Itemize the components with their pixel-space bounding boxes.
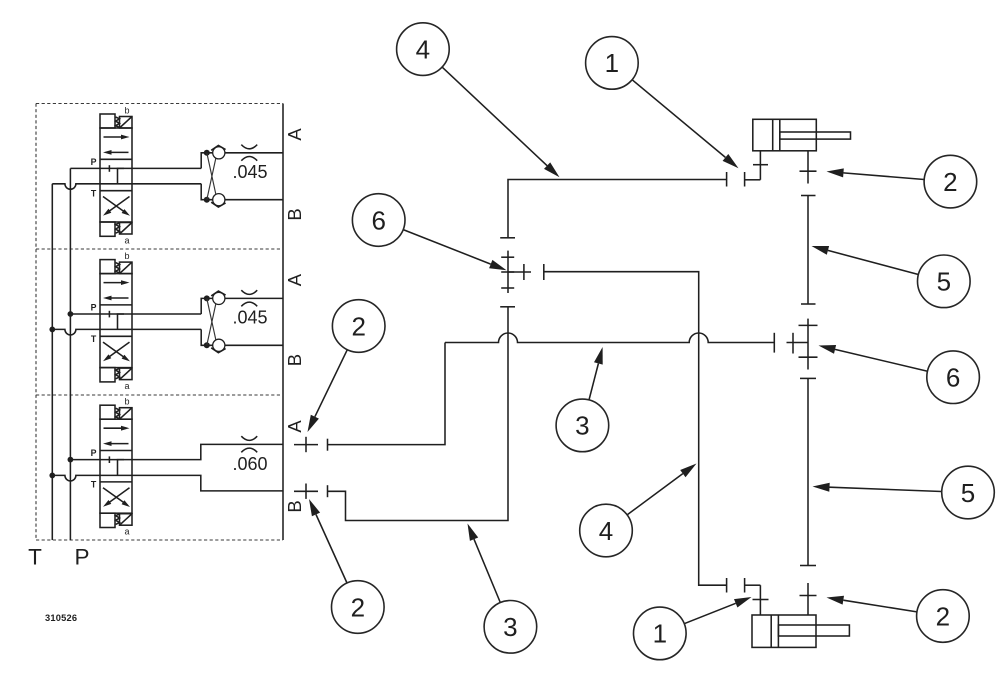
svg-text:2: 2 bbox=[936, 601, 950, 631]
tube from B3 to tee fitting 6 bbox=[328, 307, 509, 521]
section 1 T branch line with crossover bump bbox=[52, 184, 201, 190]
check valve assembly section 2 bbox=[201, 290, 283, 353]
svg-text:A: A bbox=[284, 420, 305, 433]
section 2 P branch line bbox=[70, 313, 201, 315]
callout 6 balloon bbox=[927, 351, 980, 404]
svg-text:4: 4 bbox=[599, 516, 613, 546]
callout 2 balloon bbox=[924, 155, 977, 208]
tee fitting on right column bbox=[799, 319, 818, 370]
tube from A3 to manifold line bbox=[328, 343, 446, 445]
tank supply line T bbox=[51, 184, 53, 540]
callout 1 leader bbox=[632, 80, 725, 158]
svg-text:6: 6 bbox=[946, 363, 960, 393]
callout 5 balloon bbox=[942, 466, 995, 519]
cylinder 1 left port elbow bbox=[753, 151, 768, 180]
section divider dashed line 1 bbox=[36, 248, 283, 250]
main manifold tube with crossover bumps bbox=[445, 333, 774, 343]
check valve assembly section 1 bbox=[201, 145, 283, 208]
tee fitting 6 upper bbox=[501, 251, 531, 293]
callout 4 balloon bbox=[580, 504, 633, 557]
callout 2 balloon bbox=[332, 300, 385, 353]
svg-text:1: 1 bbox=[605, 48, 619, 78]
section 3 P junction dot bbox=[68, 457, 74, 463]
callout 5 balloon bbox=[918, 255, 971, 308]
section 3 T junction dot bbox=[49, 473, 55, 479]
valve block dashed enclosure bbox=[36, 104, 283, 541]
callout 1 balloon bbox=[586, 37, 639, 90]
callout 4 leader bbox=[627, 474, 683, 515]
tube from fitting 6 up to cylinder 1 disconnect bbox=[508, 180, 727, 238]
callout 6 balloon bbox=[352, 194, 405, 247]
cylinder 1 quick disconnect bbox=[727, 172, 761, 187]
callout 3 balloon bbox=[484, 601, 537, 654]
callout 2 balloon bbox=[917, 590, 970, 643]
valve V3 bbox=[91, 397, 132, 537]
callout 5 leader bbox=[828, 250, 919, 274]
section 2 P junction dot bbox=[68, 311, 74, 317]
callout 2 leader bbox=[316, 515, 347, 584]
svg-text:B: B bbox=[284, 354, 305, 366]
svg-text:310526: 310526 bbox=[45, 613, 77, 623]
callout 1 leader bbox=[684, 603, 736, 623]
svg-text:.045: .045 bbox=[232, 162, 267, 182]
cylinder 2 left port elbow bbox=[753, 585, 769, 615]
svg-text:2: 2 bbox=[351, 592, 365, 622]
svg-text:.060: .060 bbox=[232, 454, 267, 474]
svg-text:4: 4 bbox=[416, 34, 430, 64]
svg-text:A: A bbox=[284, 128, 305, 141]
callout 2 leader bbox=[843, 173, 924, 180]
svg-text:2: 2 bbox=[351, 311, 365, 341]
callout 3 leader bbox=[474, 539, 500, 602]
callout 1 balloon bbox=[634, 607, 687, 660]
svg-text:1: 1 bbox=[653, 619, 667, 649]
section 2 T branch line with crossover bump bbox=[52, 329, 201, 335]
cylinder 1 right port fitting bbox=[800, 151, 817, 184]
section 3 T branch to B with crossover bump bbox=[52, 475, 283, 491]
svg-text:P: P bbox=[74, 545, 89, 570]
cylinder 2 quick disconnect bbox=[727, 578, 761, 593]
valve V2 bbox=[91, 251, 132, 391]
callout 4 leader bbox=[442, 67, 547, 166]
section divider dashed line 2 bbox=[36, 394, 283, 396]
tube from fitting 6 to cylinder 2 circuit bbox=[544, 264, 727, 585]
right tube upper (callout 5) bbox=[801, 196, 816, 305]
tube end tick below fitting 6 bbox=[500, 306, 515, 308]
callout 4 balloon bbox=[397, 23, 450, 76]
svg-text:.045: .045 bbox=[232, 308, 267, 328]
section 3 A line from P branch through orifice bbox=[70, 444, 283, 459]
svg-text:A: A bbox=[284, 273, 305, 286]
callout 6 leader bbox=[403, 230, 491, 265]
callout 2 leader bbox=[315, 350, 347, 417]
callout 3 leader bbox=[589, 364, 598, 400]
tube end tick above fitting 6 bbox=[500, 237, 515, 239]
cylinder 2 right port fitting bbox=[800, 583, 817, 615]
cylinder 2 bbox=[752, 615, 849, 647]
callout 2 balloon bbox=[332, 581, 385, 634]
svg-text:3: 3 bbox=[503, 612, 517, 642]
svg-text:B: B bbox=[284, 208, 305, 220]
callout 5 leader bbox=[830, 487, 942, 491]
main tube end tick bbox=[773, 333, 775, 353]
section 2 T junction dot bbox=[49, 327, 55, 333]
union fitting at tee bbox=[787, 333, 809, 354]
port A3 bulkhead fitting bbox=[294, 437, 328, 452]
callout 3 balloon bbox=[556, 399, 609, 452]
svg-text:2: 2 bbox=[943, 167, 957, 197]
svg-text:B: B bbox=[284, 500, 305, 512]
cylinder 1 bbox=[753, 119, 851, 151]
section 3 orifice symbol bbox=[241, 436, 257, 440]
section 1 P branch line bbox=[70, 167, 201, 169]
svg-text:5: 5 bbox=[961, 478, 975, 508]
svg-text:6: 6 bbox=[371, 205, 385, 235]
port B3 bulkhead fitting bbox=[294, 484, 328, 499]
pressure supply line P bbox=[69, 168, 71, 540]
right tube lower (callout 5) bbox=[800, 378, 816, 565]
svg-text:3: 3 bbox=[575, 411, 589, 441]
svg-text:T: T bbox=[28, 545, 42, 570]
callout 6 leader bbox=[835, 349, 928, 371]
callout 2 leader bbox=[843, 600, 917, 612]
svg-text:5: 5 bbox=[937, 267, 951, 297]
valve V1 bbox=[91, 106, 132, 246]
